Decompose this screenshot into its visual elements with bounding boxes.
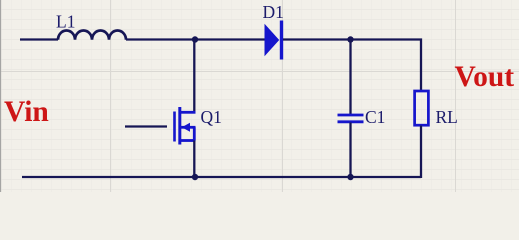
svg-text:D1: D1	[263, 2, 284, 22]
svg-text:RL: RL	[436, 107, 458, 127]
wire: output node down to C1	[349, 40, 351, 115]
resistor RL	[415, 91, 429, 125]
inductor L1	[58, 30, 126, 39]
wire: RL to bottom rail	[420, 126, 422, 179]
junction: C1 node on bottom rail	[347, 174, 353, 180]
wire: bottom rail	[22, 176, 421, 178]
transistor Q1	[175, 107, 196, 145]
capacitor C1	[338, 115, 364, 122]
wire: Q1 source to bottom rail	[193, 141, 195, 178]
svg-text:Q1: Q1	[201, 107, 222, 127]
svg-text:Vin: Vin	[4, 96, 49, 128]
junction: Q1 source node on bottom rail	[192, 174, 198, 180]
wire: Vin top segment to L1	[20, 38, 58, 40]
wire: D1 cathode along top rail and down right side	[283, 40, 421, 91]
svg-text:L1: L1	[56, 12, 75, 32]
wire: C1 to bottom rail	[349, 123, 351, 178]
wire: Q1 drain	[193, 40, 195, 113]
svg-text:C1: C1	[365, 107, 385, 127]
svg-text:Vout: Vout	[455, 61, 515, 93]
wire: L1 to D1 anode	[126, 38, 265, 40]
junction: output node on top rail	[347, 36, 353, 42]
wire: Q1 gate	[125, 125, 167, 127]
junction: drain node on top rail	[192, 36, 198, 42]
diode D1	[265, 21, 284, 60]
